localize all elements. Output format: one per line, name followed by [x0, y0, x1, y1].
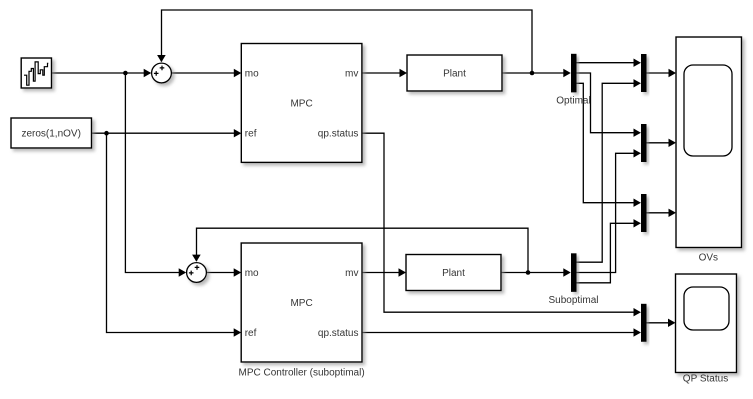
arrowhead into mux M4 in1 — [634, 308, 642, 316]
wire — [577, 62, 640, 64]
wire — [107, 133, 240, 332]
svg-text:mo: mo — [245, 69, 259, 80]
wire — [362, 133, 640, 312]
wire — [502, 72, 569, 74]
svg-text:MPC: MPC — [290, 298, 312, 309]
arrowhead into Plant2 — [399, 268, 407, 276]
wire — [197, 228, 529, 272]
arrowhead into scope OVs port1 — [669, 69, 677, 77]
svg-text:qp.status: qp.status — [318, 129, 359, 140]
svg-text:mo: mo — [245, 268, 259, 279]
svg-text:mv: mv — [345, 268, 358, 279]
wire — [577, 83, 640, 202]
wire — [206, 272, 239, 274]
node C — [530, 71, 535, 76]
mux M1 — [641, 54, 647, 92]
svg-text:Plant: Plant — [442, 268, 465, 279]
arrowhead into scope QP Status — [668, 319, 676, 327]
svg-text:Optimal: Optimal — [556, 95, 590, 106]
scope QP Status — [676, 274, 737, 385]
wire — [362, 272, 404, 274]
arrowhead into MPC2 mo — [234, 268, 242, 276]
svg-text:MPC Controller (suboptimal): MPC Controller (suboptimal) — [239, 368, 365, 379]
wire — [501, 272, 569, 274]
svg-text:ref: ref — [245, 129, 257, 140]
arrowhead into sum S1 left — [144, 69, 152, 77]
demux Optimal — [556, 54, 590, 107]
node D — [526, 270, 531, 275]
arrowhead into mux M2 in2 — [634, 149, 642, 157]
svg-text:OVs: OVs — [699, 253, 718, 264]
arrowhead into Optimal demux — [563, 69, 571, 77]
arrowhead into scope OVs port3 — [669, 209, 677, 217]
svg-text:zeros(1,nOV): zeros(1,nOV) — [21, 129, 80, 140]
MPC controller U1 — [241, 44, 362, 163]
svg-text:QP Status: QP Status — [683, 374, 728, 385]
arrowhead into mux M2 in1 — [634, 129, 642, 137]
svg-text:ref: ref — [245, 328, 257, 339]
wire — [362, 332, 640, 334]
demux Suboptimal — [548, 253, 598, 305]
Plant block P2 — [406, 255, 501, 291]
wire — [647, 322, 675, 324]
arrowhead into sum S2 top — [192, 255, 201, 262]
wire — [162, 10, 533, 73]
Plant block P1 — [407, 55, 502, 91]
node B — [104, 131, 109, 136]
wire — [647, 212, 675, 214]
wire — [362, 72, 405, 74]
sum S1 — [152, 63, 172, 83]
wire — [647, 72, 675, 74]
arrowhead into mux M1 in1 — [634, 59, 642, 67]
arrowhead into mux M3 in1 — [634, 199, 642, 207]
arrowhead into mux M1 in2 — [634, 79, 642, 87]
MPC controller U2 (suboptimal) — [239, 243, 365, 379]
arrowhead into scope OVs port2 — [669, 139, 677, 147]
svg-text:Suboptimal: Suboptimal — [548, 295, 598, 306]
wire — [52, 72, 151, 74]
wire — [577, 153, 640, 272]
scope OVs — [676, 37, 742, 264]
wire — [171, 72, 239, 74]
arrowhead into mux M4 in2 — [634, 328, 642, 336]
svg-text:MPC: MPC — [290, 99, 312, 110]
mux M3 — [641, 194, 647, 232]
arrowhead into sum S1 top — [157, 55, 166, 62]
wire — [92, 132, 240, 134]
arrowhead into sum S2 left — [179, 268, 187, 276]
wire — [577, 73, 640, 133]
wire — [577, 83, 640, 262]
svg-text:Plant: Plant — [443, 69, 466, 80]
mux M2 — [641, 124, 647, 162]
wire — [125, 73, 184, 273]
mux M4 — [641, 304, 647, 342]
arrowhead into Plant1 — [400, 69, 408, 77]
arrowhead into MPC1 mo — [234, 69, 242, 77]
arrowhead into MPC2 ref — [234, 328, 242, 336]
arrowhead into mux M3 in2 — [634, 219, 642, 227]
arrowhead into Suboptimal demux — [563, 268, 571, 276]
arrowhead into MPC1 ref — [234, 129, 242, 137]
constant block zeros(1,nOV) — [11, 118, 92, 148]
svg-text:qp.status: qp.status — [318, 328, 359, 339]
wire — [647, 142, 675, 144]
node A — [123, 71, 128, 76]
svg-text:mv: mv — [345, 69, 358, 80]
source block (random signal) — [21, 58, 51, 88]
sum S2 — [187, 263, 207, 283]
wire — [577, 223, 640, 282]
